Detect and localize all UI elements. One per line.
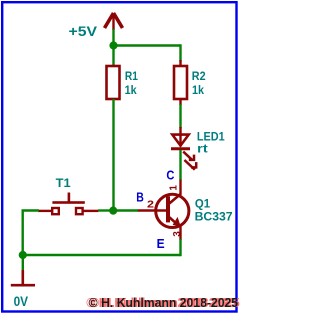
wire: down to R2 — [179, 44, 181, 61]
wire: junction down to R1 — [112, 46, 114, 66]
wire: top horizontal +5V rail — [114, 44, 181, 46]
svg-text:© H. Kuhlmann 2018-2025: © H. Kuhlmann 2018-2025 — [89, 295, 239, 310]
svg-text:0V: 0V — [14, 293, 29, 309]
svg-text:B: B — [136, 189, 144, 204]
wire: base junction to transistor — [114, 209, 139, 211]
ground symbol 0V — [11, 270, 35, 285]
wire: arrow to top junction — [112, 29, 114, 46]
wire: ground rail horizontal — [23, 254, 181, 256]
svg-text:1: 1 — [168, 185, 179, 191]
wire: down to ground symbol — [22, 255, 24, 271]
resistor R2 — [174, 60, 187, 105]
svg-text:rt: rt — [197, 142, 208, 156]
svg-text:1k: 1k — [125, 83, 137, 97]
wire: LED to collector — [179, 150, 181, 180]
svg-text:BC337: BC337 — [195, 209, 233, 223]
wire: R1 bottom to base junction — [112, 99, 114, 211]
wire: T1 to base junction — [98, 209, 114, 211]
svg-text:+5V: +5V — [69, 23, 98, 39]
LED LED1 — [171, 127, 196, 170]
svg-text:Q1: Q1 — [195, 196, 211, 210]
wire: R2 bottom to LED — [179, 104, 181, 128]
svg-text:1k: 1k — [192, 83, 204, 97]
svg-text:R1: R1 — [125, 69, 138, 83]
svg-text:C: C — [166, 168, 175, 183]
resistor R1 — [107, 66, 120, 99]
transistor Q1 (NPN BC337) — [138, 180, 189, 241]
supply symbol +5V arrow — [105, 13, 123, 30]
junction dot at base node — [109, 207, 117, 215]
pushbutton T1 — [38, 193, 99, 215]
svg-text:R2: R2 — [192, 69, 206, 83]
junction dot at +5V node — [109, 41, 117, 49]
svg-text:E: E — [157, 236, 165, 251]
wire: T1 left leg — [23, 211, 39, 256]
junction dot at ground node — [19, 251, 27, 259]
wire: emitter down to ground rail — [179, 239, 181, 256]
copyright watermark — [86, 295, 239, 310]
svg-text:3: 3 — [172, 231, 183, 237]
svg-text:T1: T1 — [56, 176, 71, 190]
svg-text:2: 2 — [147, 199, 155, 210]
